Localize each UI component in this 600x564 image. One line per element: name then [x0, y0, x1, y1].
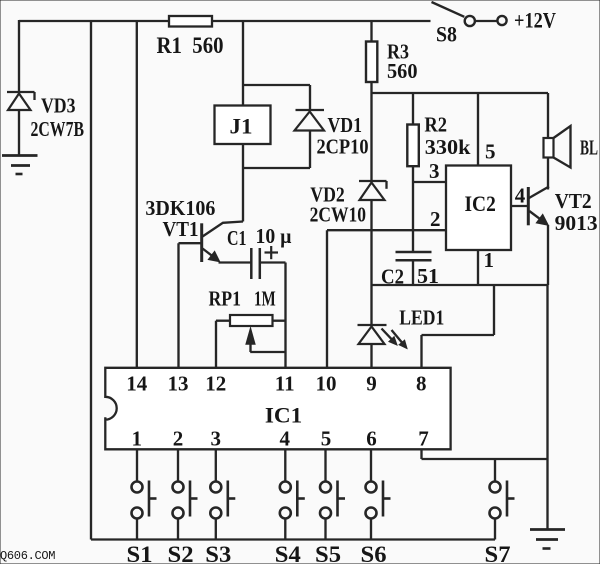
svg-text:2CP10: 2CP10	[317, 135, 369, 159]
wire: R3 bottom node rail	[372, 82, 549, 93]
wire: IC1 pin 6 to S6	[370, 449, 372, 481]
label IC1	[265, 403, 302, 428]
diode VD1	[295, 110, 325, 131]
label J1	[230, 114, 253, 139]
svg-text:560: 560	[387, 59, 418, 83]
label 9013	[555, 211, 598, 235]
svg-text:5: 5	[485, 140, 496, 164]
svg-text:+12V: +12V	[514, 8, 556, 33]
wire: IC1 pin 8 riser	[422, 285, 495, 368]
pin label 6 (IC1 bottom)	[366, 427, 377, 451]
wire: R3 node to VD2	[370, 93, 372, 181]
svg-text:12: 12	[205, 372, 226, 396]
IC U1 (IC1)	[105, 368, 450, 450]
label S1	[127, 542, 153, 564]
svg-text:R2: R2	[424, 113, 447, 137]
wire: RP1 right lead	[273, 320, 286, 322]
capacitor C2	[396, 252, 432, 260]
svg-text:Q606.COM: Q606.COM	[0, 549, 55, 563]
svg-text:S8: S8	[436, 22, 457, 47]
svg-text:S4: S4	[275, 542, 302, 564]
label LED1	[399, 306, 444, 330]
resistor R2	[407, 125, 419, 167]
label S2	[168, 542, 194, 564]
svg-text:2CW10: 2CW10	[310, 203, 366, 227]
pin label 5 (IC2)	[485, 140, 496, 164]
pin label 2 (IC1 bottom)	[173, 427, 184, 451]
label RP1 1M	[209, 287, 276, 311]
svg-text:BL: BL	[580, 136, 598, 160]
label BL	[580, 136, 598, 160]
svg-text:C2: C2	[381, 265, 404, 289]
svg-text:13: 13	[168, 372, 189, 396]
wire: rail down to relay J1	[242, 21, 244, 106]
svg-text:11: 11	[275, 372, 295, 396]
wire: LED1 to IC1 pin 9	[370, 344, 372, 368]
wire: IC1 pin 1 to S1	[136, 449, 138, 481]
wire: VD1 bottom to J1 bottom	[243, 131, 310, 169]
svg-text:2CW7B: 2CW7B	[31, 117, 85, 141]
pin label 8 (IC1 top)	[416, 372, 427, 396]
wire: IC1 pin 4 to S4	[284, 449, 286, 481]
label 560 (R3)	[387, 59, 418, 83]
pushbutton switch S6	[366, 481, 391, 540]
svg-text:S3: S3	[205, 542, 231, 564]
label S5	[315, 542, 341, 564]
svg-text:4: 4	[279, 427, 290, 451]
svg-text:VT2: VT2	[555, 189, 592, 213]
wire: trigger node line (pin10 / IC2 pin2)	[327, 229, 446, 231]
svg-text:10: 10	[316, 372, 337, 396]
wire: speaker to VT2 collector	[547, 158, 549, 190]
label 51	[417, 264, 439, 288]
label VD1	[328, 113, 363, 137]
wire: J1 node to VD1 top	[243, 85, 310, 110]
svg-text:RP1: RP1	[209, 287, 242, 311]
label 10u	[256, 224, 292, 248]
pin label 7 (IC1 bottom)	[418, 427, 429, 451]
label VD2	[310, 183, 345, 207]
ground (main)	[530, 530, 565, 549]
wire: +12V supply rail	[19, 20, 431, 22]
svg-text:S2: S2	[168, 542, 194, 564]
svg-text:1: 1	[132, 427, 143, 451]
label C1	[227, 226, 247, 250]
wire: LED1 top lead	[370, 285, 372, 325]
label S8	[436, 22, 457, 47]
label R3	[387, 40, 409, 64]
wire: rail to R3	[370, 21, 372, 42]
wire: rail to R2	[412, 93, 414, 125]
pin label 4 (IC1 bottom)	[279, 427, 290, 451]
svg-text:14: 14	[126, 372, 148, 396]
pushbutton switch S3	[210, 481, 235, 540]
LED LED1	[358, 325, 408, 349]
resistor R3	[366, 42, 377, 83]
pin label 9 (IC1 top)	[366, 372, 377, 396]
label S3	[205, 542, 231, 564]
svg-text:7: 7	[418, 427, 429, 451]
pushbutton switch S5	[320, 481, 345, 540]
svg-text:1: 1	[484, 248, 495, 272]
wire: VD2 to trigger node	[370, 200, 372, 230]
wire: ground drop	[546, 285, 548, 529]
label VT1	[163, 217, 199, 241]
svg-text:VD1: VD1	[328, 113, 363, 137]
label VT2	[555, 189, 592, 213]
pin label 3 (IC2)	[429, 159, 440, 183]
relay J1	[215, 106, 271, 145]
svg-text:2: 2	[430, 207, 441, 231]
label 2CW10	[310, 203, 366, 227]
wire: VD3 to ground	[18, 110, 20, 156]
svg-text:VD3: VD3	[41, 94, 76, 118]
watermark Q606.COM	[0, 549, 55, 563]
svg-text:IC1: IC1	[265, 403, 302, 428]
pin label 12 (IC1 top)	[205, 372, 226, 396]
wire: rail to IC1 pin 14	[136, 21, 138, 368]
label S7	[485, 542, 511, 564]
wire: VT2 emitter to ground rail	[547, 225, 549, 285]
transistor VT2	[528, 187, 549, 226]
resistor R1	[169, 16, 212, 27]
svg-text:R1 560: R1 560	[157, 33, 224, 58]
wire: rail to switch common	[90, 21, 92, 540]
svg-text:6: 6	[366, 427, 377, 451]
wire: J1 to VT1 collector	[242, 144, 244, 222]
pin label 3 (IC1 bottom)	[210, 427, 221, 451]
capacitor C1	[251, 248, 259, 279]
svg-text:VT1: VT1	[163, 217, 199, 241]
wire: wiper to pin 11 line	[250, 351, 285, 353]
label 330k	[425, 135, 471, 159]
svg-text:S5: S5	[315, 542, 341, 564]
wire: C1 to IC1 pin 11	[260, 263, 286, 369]
label R2	[424, 113, 447, 137]
label C2	[381, 265, 404, 289]
wire: IC2 pin 1 to ground rail	[477, 250, 479, 285]
svg-text:9: 9	[366, 372, 377, 396]
pushbutton switch S1	[132, 481, 157, 540]
label +12V	[514, 8, 556, 33]
svg-text:4: 4	[515, 184, 526, 208]
svg-text:5: 5	[321, 427, 332, 451]
label 3DK106	[145, 196, 215, 220]
pin label 2 (IC2)	[430, 207, 441, 231]
pin label 1 (IC1 bottom)	[132, 427, 143, 451]
wire: IC2 pin 3	[413, 181, 446, 183]
pin label 14 (IC1 top)	[126, 372, 148, 396]
pin label 13 (IC1 top)	[168, 372, 189, 396]
wire: VT1 emitter to C1	[219, 261, 252, 263]
wire: IC1 pin 3 to S3	[215, 449, 217, 481]
pin label 5 (IC1 bottom)	[321, 427, 332, 451]
svg-text:S7: S7	[485, 542, 511, 564]
pushbutton switch S7	[490, 481, 515, 540]
potentiometer RP1	[230, 315, 273, 326]
switch S8	[432, 2, 507, 26]
label VD3	[41, 94, 76, 118]
svg-text:9013: 9013	[555, 211, 598, 235]
pushbutton switch S2	[173, 481, 198, 540]
svg-text:10 µ: 10 µ	[256, 224, 292, 248]
IC U2 (IC2)	[446, 166, 511, 251]
wire: VD2 node to ground rail	[370, 230, 372, 285]
label S6	[361, 542, 387, 564]
label 2CW7B	[31, 117, 85, 141]
svg-text:2: 2	[173, 427, 184, 451]
pin label 10 (IC1 top)	[316, 372, 337, 396]
svg-text:S6: S6	[361, 542, 387, 564]
wire: IC2 pin 4 to VT2 base	[511, 205, 528, 207]
wire: VT1 base to IC1 pin 13	[179, 243, 202, 368]
polarity + of C1	[265, 246, 279, 259]
wire: node to IC1 pin 10	[326, 230, 328, 368]
wire: switch common line	[91, 538, 495, 540]
wire: R2 to C2 (pins 3/2 column)	[412, 166, 414, 252]
ground (VD3)	[2, 156, 38, 175]
transistor VT1	[202, 222, 243, 263]
svg-text:3: 3	[429, 159, 440, 183]
svg-text:1M: 1M	[254, 287, 276, 311]
pin label 11 (IC1 top)	[275, 372, 295, 396]
svg-text:51: 51	[417, 264, 439, 288]
wire: IC1 pin 5 to S5	[324, 449, 326, 481]
wire: rail to speaker	[547, 93, 549, 138]
svg-text:IC2: IC2	[465, 191, 496, 216]
svg-text:8: 8	[416, 372, 427, 396]
label IC2	[465, 191, 496, 216]
zener diode VD3	[7, 92, 35, 110]
wire: IC1 pin 7 to S7	[494, 459, 496, 482]
wire: ground rail (C2/IC2 pin1)	[372, 284, 548, 286]
wire: rail to VD3	[18, 20, 20, 92]
pin label 1 (IC2)	[484, 248, 495, 272]
wire: rail to IC2 pin 5	[477, 93, 479, 166]
label S4	[275, 542, 302, 564]
pin label 4 (IC2)	[515, 184, 526, 208]
speaker BL	[544, 126, 571, 168]
svg-text:S1: S1	[127, 542, 153, 564]
label 2CP10	[317, 135, 369, 159]
wiper of RP1	[246, 328, 255, 352]
pushbutton switch S4	[280, 481, 305, 540]
svg-text:J1: J1	[230, 114, 253, 139]
label R1 560	[157, 33, 224, 58]
zener diode VD2	[359, 181, 387, 200]
wire: IC1 pin 2 to S2	[177, 449, 179, 481]
svg-text:3: 3	[210, 427, 221, 451]
wire: RP1 left lead to IC1 pin 12	[216, 321, 230, 368]
wire: C2 to ground rail	[412, 260, 414, 285]
wire: IC1 pin 7 to ground line	[422, 449, 548, 459]
svg-text:C1: C1	[227, 226, 247, 250]
svg-text:LED1: LED1	[399, 306, 444, 330]
svg-text:330k: 330k	[425, 135, 471, 159]
